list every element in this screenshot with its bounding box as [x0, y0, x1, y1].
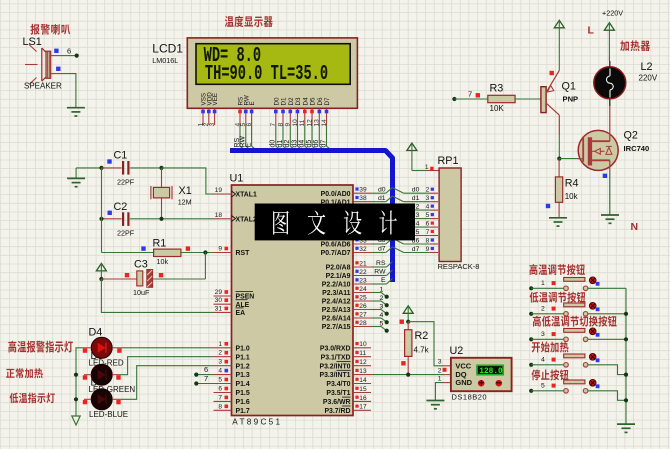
pin U1.34 P0.5	[353, 235, 371, 237]
svg-text:R1: R1	[153, 238, 167, 250]
svg-text:16: 16	[359, 395, 367, 402]
pin U1.33 P0.6	[353, 243, 371, 245]
svg-text:P3.5/T1: P3.5/T1	[326, 390, 350, 397]
pin RP1.2 stub	[430, 192, 438, 194]
svg-text:PNP: PNP	[563, 95, 579, 104]
lcd pin 6 number	[250, 110, 254, 114]
svg-text:9: 9	[426, 246, 430, 253]
wire P2.3 net1	[371, 292, 381, 294]
wire LCD RS to bus	[240, 125, 246, 151]
svg-text:P1.6: P1.6	[236, 399, 250, 406]
label 停止按钮	[531, 369, 540, 380]
node junction	[624, 337, 628, 341]
wire to RP1 pin1	[412, 170, 427, 172]
pin U1.39 P0.0	[353, 192, 371, 194]
svg-text:U2: U2	[450, 345, 464, 357]
svg-text:P1.3: P1.3	[236, 372, 250, 379]
node 6	[194, 373, 198, 377]
pin U1.16 P3.6/WR	[353, 400, 371, 402]
wire LED2 cathode to P1.1	[120, 357, 214, 375]
node junction	[159, 217, 163, 221]
pin U1.12 P3.2/INT0	[353, 365, 371, 367]
svg-text:d1: d1	[277, 140, 284, 148]
svg-text:P2.0/A8: P2.0/A8	[326, 265, 351, 272]
node junction	[99, 166, 103, 170]
svg-text:P1.5: P1.5	[236, 390, 250, 397]
wire LCD d2 to bus	[290, 125, 296, 151]
lcd pin 4 number	[238, 110, 242, 114]
button 3	[564, 337, 569, 342]
pin U2.2 stub	[443, 374, 451, 376]
svg-text:C2: C2	[114, 201, 128, 213]
speaker LS1	[25, 45, 51, 85]
pin U1.23 P2.2	[353, 283, 371, 285]
pin U1.4 P1.3	[214, 374, 232, 376]
svg-text:2: 2	[380, 295, 384, 302]
svg-text:P2.4/A12: P2.4/A12	[322, 299, 351, 306]
wire Q2 source to ground	[609, 160, 611, 172]
wire C2 to XTAL2	[130, 218, 214, 220]
svg-text:P3.2/INT0: P3.2/INT0	[319, 363, 350, 370]
wire C2 left	[102, 218, 122, 220]
wire button2 to rail	[588, 313, 626, 315]
svg-text:P0.0/AD0: P0.0/AD0	[321, 191, 351, 198]
ground	[75, 168, 77, 179]
svg-text:18: 18	[215, 212, 223, 219]
lcd screen	[196, 44, 350, 85]
svg-text:C3: C3	[134, 259, 148, 271]
svg-text:22PF: 22PF	[117, 229, 135, 238]
diode D5 LED-GREEN	[91, 364, 112, 385]
svg-text:29: 29	[215, 289, 223, 296]
svg-text:2: 2	[426, 187, 430, 194]
svg-text:RESPACK-8: RESPACK-8	[438, 262, 480, 271]
svg-text:RST: RST	[236, 250, 251, 257]
wire bus to RP1 pin5	[393, 213, 404, 219]
svg-text:22: 22	[359, 269, 367, 276]
label 低温调节按钮	[530, 292, 539, 303]
label 加热器	[620, 40, 629, 51]
svg-text:d1: d1	[412, 195, 420, 202]
svg-text:C1: C1	[114, 150, 128, 162]
watermark box	[255, 204, 415, 241]
pin U1.24 P2.3	[353, 292, 371, 294]
lcd pin 1 stub	[202, 108, 204, 125]
svg-text:U1: U1	[230, 173, 244, 185]
pin RP1.3 stub	[430, 201, 438, 203]
svg-text:VCC: VCC	[455, 361, 471, 370]
respack RP1 body	[439, 168, 461, 262]
wire C3 to EA	[101, 279, 213, 312]
wire LED anode rail	[76, 348, 84, 416]
pin RP1.7 stub	[430, 235, 438, 237]
pin U1.32 P0.7	[353, 252, 371, 254]
svg-text:7: 7	[204, 374, 208, 383]
node junction	[406, 320, 410, 324]
svg-text:5: 5	[218, 377, 222, 384]
watermark 图文设计	[273, 211, 289, 235]
pin U1.7 P1.6	[214, 400, 232, 402]
svg-text:31: 31	[215, 305, 223, 312]
svg-text:39: 39	[359, 187, 367, 194]
node 1	[385, 295, 389, 299]
pin U1.29 PSEN	[214, 295, 232, 297]
wire button3 to rail	[588, 338, 626, 340]
mosfet Q2	[578, 130, 618, 170]
lcd pin 4 stub	[239, 108, 241, 125]
ground	[549, 217, 567, 219]
svg-text:P0.7/AD7: P0.7/AD7	[321, 250, 351, 257]
wire bus to RP1 pin6	[393, 222, 404, 228]
mcu U1 body	[232, 185, 354, 416]
svg-text:D7: D7	[324, 97, 331, 106]
svg-text:1: 1	[425, 164, 429, 171]
wire LCD d1 to bus	[283, 125, 289, 151]
svg-text:17: 17	[359, 404, 367, 411]
wire power to lamp	[608, 23, 610, 57]
svg-text:AT89C51: AT89C51	[232, 418, 282, 427]
svg-text:Q1: Q1	[562, 81, 576, 93]
svg-text:P3.0/RXD: P3.0/RXD	[320, 345, 351, 352]
pin U1.17 P3.7/RD	[353, 409, 371, 411]
svg-text:DS18B20: DS18B20	[452, 393, 488, 402]
pin U1.30 ALE	[214, 303, 232, 305]
wire bus to RP1 pin4	[393, 205, 404, 211]
pin U1.19 XTAL1	[214, 193, 232, 195]
wire net5 to button	[531, 390, 564, 392]
pin U1.18 XTAL2	[214, 218, 232, 220]
lcd pin 6 stub	[251, 108, 253, 125]
svg-text:8: 8	[426, 237, 430, 244]
svg-text:d7: d7	[378, 246, 386, 253]
wire C1 to crystal node	[130, 167, 162, 169]
wire button ground rail	[625, 288, 627, 424]
svg-text:22PF: 22PF	[117, 178, 135, 187]
svg-text:R2: R2	[415, 330, 429, 342]
svg-text:3: 3	[209, 123, 216, 127]
svg-text:4: 4	[426, 204, 430, 211]
node 5	[529, 389, 533, 393]
node 5	[385, 329, 389, 333]
node junction	[624, 312, 628, 316]
ground	[601, 214, 619, 216]
wire bus to RP1 pin3	[393, 196, 404, 202]
wire P0.3 to bus	[371, 218, 386, 220]
wire LCD d7 to bus	[327, 125, 333, 151]
pin U1.11 P3.1/TXD	[353, 356, 371, 358]
svg-text:28: 28	[359, 320, 367, 327]
label 高温报警指示灯	[8, 341, 16, 353]
ground	[67, 107, 85, 109]
svg-text:6: 6	[218, 386, 222, 393]
svg-text:3: 3	[541, 331, 545, 338]
svg-text:10K: 10K	[490, 104, 505, 113]
svg-text:d2: d2	[284, 140, 291, 148]
svg-text:1: 1	[380, 287, 384, 294]
wire Q1 collector down	[558, 115, 560, 135]
node 2	[529, 312, 533, 316]
svg-text:5: 5	[380, 321, 384, 328]
svg-text:X1: X1	[179, 185, 192, 197]
svg-text:Q2: Q2	[624, 130, 638, 142]
svg-text:5: 5	[426, 212, 430, 219]
lcd pin 8 stub	[282, 108, 284, 125]
wire P2.2 E to bus	[371, 283, 387, 285]
svg-text:6: 6	[426, 221, 430, 228]
svg-text:d0: d0	[412, 187, 420, 194]
wire P2.5 net3	[371, 309, 381, 311]
wire LCD d6 to bus	[319, 125, 325, 151]
svg-text:P1.0: P1.0	[236, 345, 250, 352]
node junction	[159, 166, 163, 170]
lcd pin 2 number	[207, 110, 211, 114]
wire P0.5 to bus	[371, 235, 386, 237]
wire LED1 cathode to P1.0	[120, 347, 214, 349]
power +5V	[403, 306, 413, 314]
svg-text:3: 3	[218, 359, 222, 366]
node junction	[406, 373, 410, 377]
svg-text:1: 1	[438, 375, 442, 382]
svg-text:3: 3	[380, 304, 384, 311]
svg-text:2: 2	[438, 367, 442, 374]
svg-text:P2.1/A9: P2.1/A9	[326, 273, 351, 280]
svg-text:D4: D4	[89, 327, 103, 339]
wire button5 to rail	[588, 391, 626, 401]
pin U1.10 P3.0/RXD	[353, 347, 371, 349]
sensor knob -	[496, 380, 503, 387]
sensor U2 DS18B20 body	[451, 358, 512, 391]
lcd pin 11 number	[303, 110, 307, 114]
lcd pin 12 number	[310, 110, 314, 114]
svg-text:26: 26	[359, 303, 367, 310]
wire cap chain vertical	[101, 168, 103, 253]
svg-text:LCD1: LCD1	[152, 41, 183, 55]
lcd pin 5 stub	[245, 108, 247, 125]
svg-text:R4: R4	[565, 178, 579, 190]
label 高低温调节切换按钮	[533, 316, 541, 327]
ground arrow	[72, 416, 80, 425]
pin LS1.2 stub	[51, 73, 63, 75]
svg-text:TH=90.0 TL=35.0: TH=90.0 TL=35.0	[205, 62, 328, 86]
svg-text:D5: D5	[310, 97, 317, 106]
node 2	[385, 303, 389, 307]
svg-text:2: 2	[218, 350, 222, 357]
svg-text:d7: d7	[412, 246, 420, 253]
svg-text:4: 4	[218, 368, 222, 375]
pin U1.13 P3.3/INT1	[353, 374, 371, 376]
bus LCD to RP1	[230, 151, 393, 283]
svg-text:27: 27	[359, 311, 367, 318]
svg-text:25: 25	[359, 294, 367, 301]
lcd pin 10 number	[296, 110, 300, 114]
label 低温指示灯	[10, 393, 19, 404]
svg-text:P1.7: P1.7	[236, 408, 250, 415]
wire collector to Q2 gate	[559, 158, 578, 160]
wire R1 to RST	[181, 252, 214, 254]
lcd pin 7 stub	[275, 108, 277, 125]
svg-text:23: 23	[359, 277, 367, 284]
lcd pin 3 stub	[214, 108, 216, 125]
node junction	[74, 373, 78, 377]
lcd pin 14 stub	[326, 108, 328, 125]
node junction	[624, 398, 628, 402]
wire U2 gnd	[435, 383, 443, 401]
svg-text:10: 10	[359, 341, 367, 348]
svg-text:E: E	[381, 277, 386, 284]
svg-text:d1: d1	[378, 195, 386, 202]
pin U1.35 P0.4	[353, 226, 371, 228]
wire RST row	[102, 252, 154, 254]
svg-text:IRC740: IRC740	[624, 144, 650, 153]
wire P0.1 to bus	[371, 201, 386, 203]
svg-text:4: 4	[541, 357, 545, 364]
wire P0.4 to bus	[371, 226, 386, 228]
lcd pin 9 number	[289, 110, 293, 114]
svg-text:P3.3/INT1: P3.3/INT1	[319, 372, 350, 379]
button 2	[564, 312, 569, 317]
svg-text:P1.1: P1.1	[236, 354, 250, 361]
label 温度显示器	[225, 16, 234, 27]
node junction	[99, 217, 103, 221]
lcd pin 9 stub	[289, 108, 291, 125]
svg-text:LS1: LS1	[23, 36, 42, 48]
wire P0.0 to bus	[371, 192, 386, 194]
wire P2.4 net2	[371, 300, 381, 302]
svg-text:7: 7	[218, 394, 222, 401]
pin U2.3 stub	[443, 365, 451, 367]
lcd pin 1 number	[201, 110, 205, 114]
pin U1.14 P3.4/T0	[353, 383, 371, 385]
svg-text:15: 15	[359, 386, 367, 393]
lcd pin 11 stub	[304, 108, 306, 125]
svg-text:21: 21	[359, 260, 367, 267]
wire ground to C1	[76, 167, 101, 169]
pin LS1.1 stub	[51, 55, 63, 57]
pin U1.27 P2.6	[353, 317, 371, 319]
svg-text:d7: d7	[320, 140, 327, 148]
wire R3 to Q1 base	[515, 98, 541, 100]
button 4	[564, 363, 569, 368]
svg-text:24: 24	[359, 286, 367, 293]
wire net1 to button	[531, 287, 564, 289]
svg-text:LED-BLUE: LED-BLUE	[89, 410, 128, 419]
node 7	[194, 381, 198, 385]
svg-text:10k: 10k	[157, 257, 169, 266]
wire LCD RW to bus	[246, 125, 252, 151]
svg-text:9: 9	[218, 246, 222, 253]
wire P1.4 net7	[196, 383, 213, 385]
node 1	[529, 286, 533, 290]
svg-text:D4: D4	[302, 97, 309, 106]
ground	[426, 400, 444, 402]
wire bus to RP1 pin2	[393, 188, 404, 194]
wire P2.0 RS to bus	[371, 266, 387, 268]
lcd pin 12 stub	[311, 108, 313, 125]
node junction	[74, 397, 78, 401]
wire to XTAL1	[162, 168, 214, 194]
svg-text:P2.2/A10: P2.2/A10	[322, 282, 351, 289]
wire P2.7 net5	[371, 326, 381, 328]
wire LCD d3 to bus	[298, 125, 304, 151]
svg-text:N: N	[631, 221, 639, 233]
svg-text:7: 7	[468, 90, 472, 99]
wire net4 to button	[531, 364, 564, 366]
wire LCD d4 to bus	[305, 125, 311, 151]
svg-text:11: 11	[359, 350, 366, 357]
svg-text:13: 13	[359, 368, 367, 375]
svg-text:14: 14	[359, 377, 367, 384]
power +220V	[604, 23, 614, 31]
svg-text:30: 30	[215, 297, 223, 304]
node 4	[385, 320, 389, 324]
svg-text:6: 6	[204, 365, 208, 374]
svg-text:P3.6/WR: P3.6/WR	[323, 399, 351, 406]
pin U1.15 P3.5/T1	[353, 392, 371, 394]
wire C1 left	[102, 167, 122, 169]
transistor Q1	[541, 87, 546, 113]
wire P2.1 RW to bus	[371, 275, 387, 277]
svg-text:d3: d3	[291, 140, 298, 148]
pin RP1.8 stub	[430, 243, 438, 245]
wire RST to C3	[204, 253, 206, 280]
svg-text:2: 2	[541, 306, 545, 313]
svg-text:19: 19	[215, 187, 223, 194]
svg-text:D6: D6	[317, 97, 324, 106]
wire net6 to speaker	[63, 55, 77, 57]
svg-text:d4: d4	[299, 140, 306, 148]
wire speaker to ground	[63, 74, 76, 108]
wire LED3 cathode to P1.2	[120, 366, 214, 400]
svg-text:d5: d5	[306, 140, 313, 148]
pin U1.2 P1.1	[214, 356, 232, 358]
svg-text:220V: 220V	[639, 74, 658, 83]
pin U1.21 P2.0	[353, 266, 371, 268]
wire P0.2 to bus	[371, 209, 386, 211]
node 3	[529, 337, 533, 341]
svg-text:D1: D1	[281, 97, 288, 106]
node junction	[557, 157, 561, 161]
svg-text:E: E	[249, 101, 256, 105]
lcd pin 13 stub	[318, 108, 320, 125]
svg-text:RW: RW	[374, 269, 386, 276]
lamp L2	[594, 67, 626, 99]
pin RP1.5 stub	[430, 218, 438, 220]
svg-text:d0: d0	[378, 186, 386, 193]
wire P0.6 to bus	[371, 243, 386, 245]
diode D6 LED-BLUE	[91, 389, 112, 410]
wire P2.6 net4	[371, 317, 381, 319]
ground	[617, 423, 635, 425]
lcd pin 3 number	[213, 110, 217, 114]
power +5V	[96, 263, 106, 271]
label 高温调节按钮	[529, 264, 537, 275]
svg-text:d6: d6	[313, 140, 320, 148]
svg-text:32: 32	[359, 246, 367, 253]
pin RP1.9 stub	[430, 252, 438, 254]
pin U2.1 stub	[443, 382, 451, 384]
svg-text:P2.7/A15: P2.7/A15	[322, 324, 351, 331]
svg-text:SPEAKER: SPEAKER	[24, 82, 62, 91]
button 5	[564, 389, 569, 394]
pin U1.37 P0.2	[353, 209, 371, 211]
node junction	[203, 250, 207, 254]
wire bus to RP1 pin8	[393, 238, 404, 244]
svg-text:D2: D2	[288, 97, 295, 106]
wire LCD d0 to bus	[276, 125, 282, 151]
svg-text:XTAL1: XTAL1	[236, 192, 257, 199]
lcd pin 10 stub	[297, 108, 299, 125]
label 正常加热	[6, 369, 14, 378]
